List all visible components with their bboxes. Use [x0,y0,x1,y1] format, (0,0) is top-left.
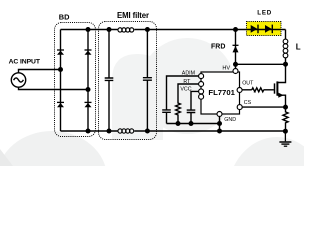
inductor L1 EMI top coil [118,28,134,32]
node CS/source [283,105,288,110]
resistor R2 sense [283,107,288,131]
wire AC bottom [19,87,89,89]
node bottom-rail/CX2 [145,129,150,134]
EMI filter dashed box [99,22,157,140]
node L/drain [283,62,288,67]
inductor L [285,30,287,65]
node bottom-rail/GND [217,129,222,134]
node top-rail/FRD [233,27,238,32]
diode FRD [233,45,239,52]
bridge diode D2 upper-right [85,50,92,55]
wire ADIM with capacitor C1 [162,76,198,124]
wire AC top [19,70,61,73]
pin RT [199,82,204,87]
bridge diode D1 upper-left [57,50,64,55]
svg-text:VCC: VCC [180,87,191,93]
wire VCC with capacitor C2 [187,91,199,123]
wire drain drop [278,64,286,82]
wire OUT to gate with resistor R1 [242,88,274,92]
capacitor CX2 EMI right [143,30,152,132]
node bottom-rail/right-branch [86,129,91,134]
wire HV stub [235,64,237,68]
capacitor CX1 EMI left [105,30,114,132]
inductor L2 EMI bottom coil [118,129,134,133]
wire source to CS node [278,95,286,107]
ground [279,131,291,146]
LED diode LED1 [251,25,258,34]
LED highlight box [247,22,282,36]
wire FRD to L node [236,63,286,65]
node top-rail/right-branch [86,27,91,32]
BD dashed box [55,23,96,137]
resistor R3 on RT [176,84,199,124]
svg-text:BD: BD [59,13,70,22]
pin NC [199,94,204,99]
svg-text:CS: CS [244,100,252,106]
node bus/VCC-cap [189,121,194,126]
node FRD/HV [233,62,238,67]
svg-text:GND: GND [224,117,236,123]
wire component ground bus [167,123,220,125]
pin OUT [237,88,242,93]
bridge diode D4 lower-right [85,102,92,107]
pin GND [217,112,222,117]
transistor Q1 [275,81,284,97]
wire top rail [61,29,286,31]
LED diode LED2 [265,25,272,34]
bridge diode D3 lower-left [57,102,64,107]
wire CS [242,106,285,108]
pin ADIM [199,74,204,79]
pin circles [199,69,243,117]
AC source AC1 [11,73,25,87]
node bus/RT [176,121,181,126]
svg-text:FRD: FRD [211,44,225,51]
svg-text:AC INPUT: AC INPUT [9,59,41,66]
svg-text:L: L [296,42,301,51]
pin CS [237,105,242,110]
wire bridge left branch [60,30,62,132]
svg-text:EMI filter: EMI filter [117,11,149,20]
node AC-top/left-branch [58,67,63,72]
wire GND drop [219,117,221,132]
svg-text:ADIM: ADIM [182,70,195,76]
wire bottom rail [61,130,286,132]
wire FRD branch [235,30,237,65]
pin VCC [199,89,204,94]
svg-text:HV: HV [222,65,230,71]
node bus/GND-drop [217,121,222,126]
svg-text:LED: LED [257,10,272,17]
svg-text:FL7701: FL7701 [208,88,235,97]
node bottom-rail/CX1 [107,129,112,134]
svg-text:OUT: OUT [242,80,254,86]
op-amp U1 FL7701 body [201,72,240,114]
wire bridge right branch [87,30,89,132]
node AC-bottom/right-branch [86,87,91,92]
pin HV [233,69,238,74]
svg-text:RT: RT [183,79,191,85]
node bottom-rail/sense [283,129,288,134]
node top-rail/CX1 [107,27,112,32]
node top-rail/CX2 [145,27,150,32]
